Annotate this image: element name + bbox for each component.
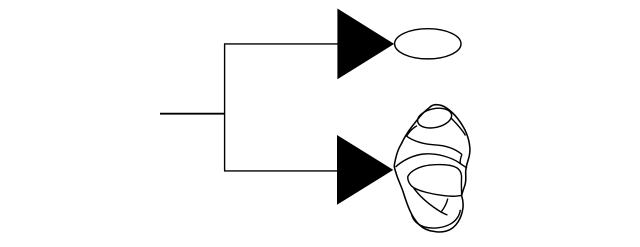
brain fold: small crease xyxy=(442,199,448,212)
brain fold: right crease xyxy=(451,118,466,136)
brain fold: top ellipse lobe xyxy=(416,105,454,131)
brain fold: upper band xyxy=(407,136,462,154)
buffer U1 (top amplifier triangle) xyxy=(338,9,393,78)
brain fold: central lobe xyxy=(408,165,462,197)
wire input stub xyxy=(160,113,225,115)
wire top branch xyxy=(224,43,338,45)
brain fold: right pocket xyxy=(460,155,462,164)
brain fold: lower band xyxy=(396,154,468,168)
brain fold: bottom lobe xyxy=(412,210,461,228)
brain fold: left crease xyxy=(406,126,417,137)
brain fold: diagonal swirl xyxy=(414,188,448,215)
buffer U2 (bottom amplifier triangle) xyxy=(338,136,393,204)
node brain blob outline xyxy=(394,105,470,232)
wire vertical bus xyxy=(224,44,226,171)
wire bottom branch xyxy=(224,170,338,172)
node oval xyxy=(395,29,461,59)
